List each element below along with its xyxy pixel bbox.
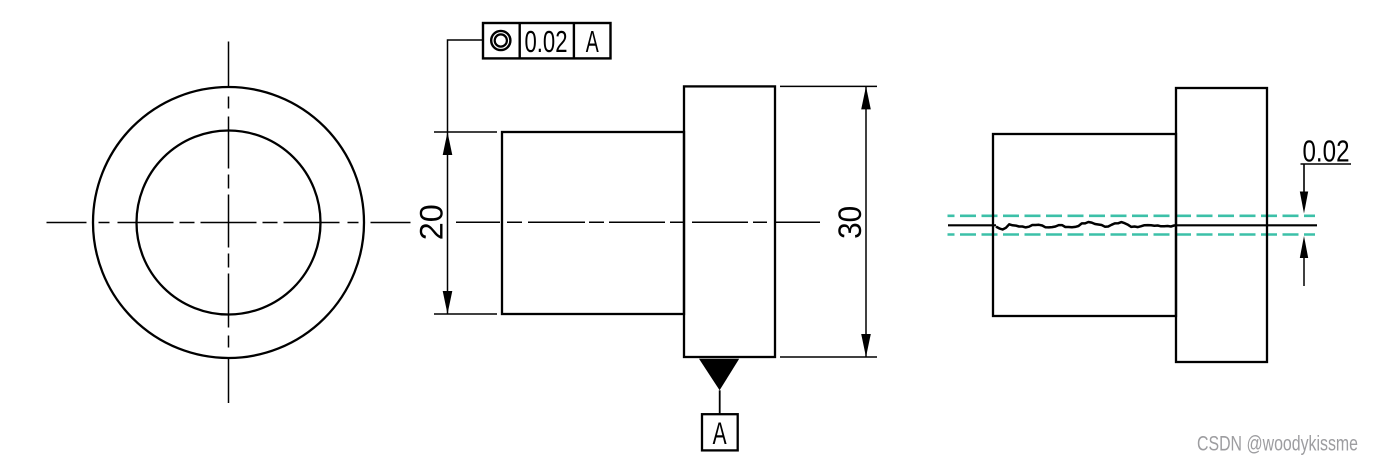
upper tolerance zone boundary (cyan dashed) <box>948 215 1316 218</box>
datum A: filled triangle on bottom of large cylinder <box>699 359 739 391</box>
svg-text:A: A <box>586 24 599 59</box>
horizontal centerline <box>47 222 412 224</box>
small cylinder rectangle (right view) <box>993 134 1176 316</box>
dimension 30: top extension line <box>780 85 877 87</box>
dimension 30: bottom arrow <box>861 334 871 357</box>
svg-text:20: 20 <box>414 204 450 240</box>
svg-text:0.02: 0.02 <box>525 24 568 59</box>
svg-text:A: A <box>713 415 727 451</box>
svg-text:0.02: 0.02 <box>1303 133 1350 168</box>
dimension 0.02: lower arrow (points up at lower boundary) <box>1300 236 1308 258</box>
dimension 0.02: underline / landing <box>1301 163 1352 165</box>
svg-text:30: 30 <box>832 206 868 239</box>
concentricity symbol outer circle <box>491 31 510 50</box>
small cylinder rectangle <box>502 132 684 314</box>
datum A: box <box>702 414 738 450</box>
large cylinder rectangle (right view) <box>1176 88 1267 362</box>
datum A: stem line <box>719 390 721 414</box>
dimension 20: bottom extension line <box>434 313 497 315</box>
large cylinder rectangle <box>684 86 775 357</box>
dimension 20: top arrow <box>443 132 453 155</box>
dimension 0.02: upper arrow (points down at upper boundary) <box>1300 192 1308 214</box>
dimension 20: top extension line <box>434 131 497 133</box>
dimension 0.02: leader down <box>1303 164 1305 193</box>
datum axis line right segment <box>1176 224 1317 226</box>
dimension 20: bottom arrow <box>443 291 453 314</box>
dimension 20: dimension line + leader to FCF <box>448 40 484 314</box>
dimension 30: bottom extension line <box>780 356 877 358</box>
middle centerline <box>456 221 820 223</box>
dimension 30: top arrow <box>861 86 871 109</box>
inner circle (diameter 20 cylinder) <box>137 131 321 315</box>
datum axis line left segment <box>948 224 996 226</box>
svg-text:CSDN @woodykissme: CSDN @woodykissme <box>1197 432 1358 456</box>
actual axis wavy line <box>996 222 1176 230</box>
dimension 30: dimension line <box>865 86 867 357</box>
vertical centerline <box>228 42 230 404</box>
feature control frame border <box>483 23 611 58</box>
FCF divider 2 <box>573 23 575 58</box>
dimension 0.02: lower arrow stem <box>1303 256 1305 286</box>
outer circle (diameter 30 cylinder) <box>93 87 364 358</box>
lower tolerance zone boundary (cyan dashed) <box>948 233 1316 236</box>
FCF divider 1 <box>519 23 521 58</box>
concentricity symbol inner circle <box>495 34 507 46</box>
